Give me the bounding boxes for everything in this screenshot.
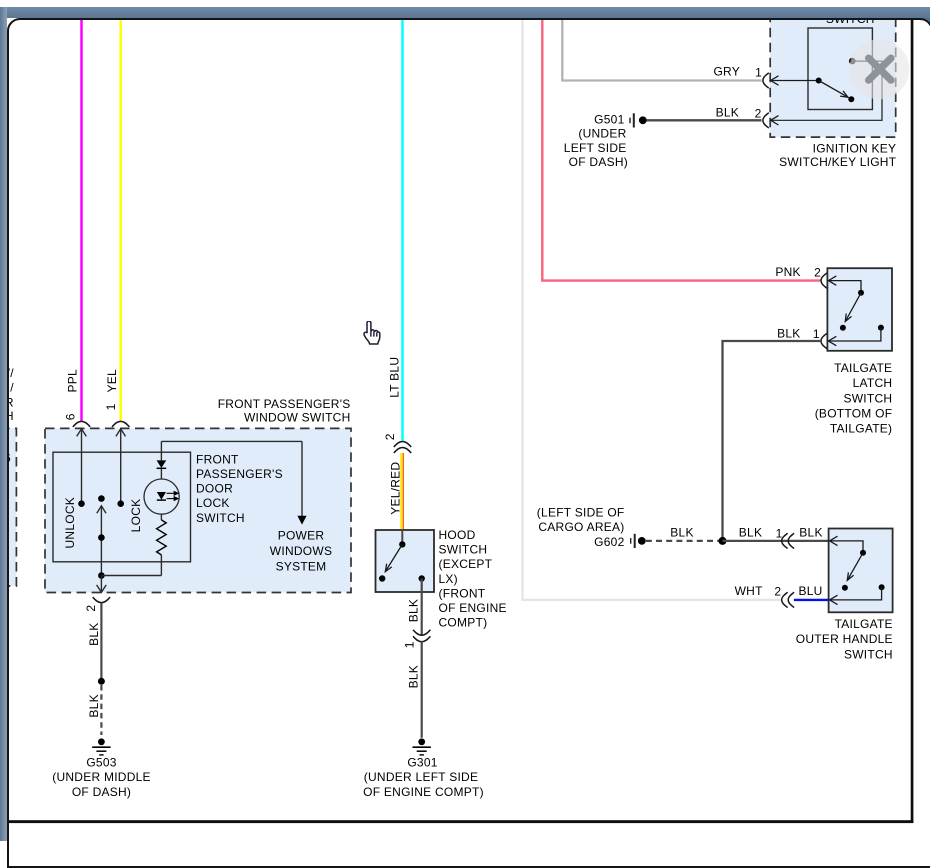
svg-text:OUTER HANDLE: OUTER HANDLE — [796, 632, 893, 646]
svg-text:G301: G301 — [407, 756, 437, 770]
latch switch blade (arrow down-left) — [845, 293, 861, 322]
inline connector (double cup) on WHT/BLU — [782, 592, 788, 607]
svg-text:1: 1 — [755, 66, 762, 80]
node hood switch lower right contact — [419, 575, 425, 581]
wire YEL/RED (vertical to hood switch) — [400, 453, 403, 530]
arrowed lead ignition pin 1 — [771, 76, 819, 85]
svg-text:YEL/RED: YEL/RED — [388, 462, 402, 515]
svg-text:BLK: BLK — [799, 526, 822, 540]
svg-text:2: 2 — [383, 433, 397, 440]
svg-text:SYSTEM: SYSTEM — [276, 560, 327, 574]
wire LT BLU (vertical) — [401, 19, 404, 441]
svg-text:SWITCH: SWITCH — [843, 391, 892, 405]
node common top contact — [98, 495, 105, 502]
svg-text:POWER: POWER — [278, 528, 325, 542]
svg-text:SWITCH/KEY LIGHT: SWITCH/KEY LIGHT — [779, 155, 897, 169]
mouse hand cursor — [364, 321, 380, 344]
node ignition blade target — [848, 96, 854, 102]
lead from outer handle pin 2 — [830, 587, 882, 604]
svg-text:UNLOCK: UNLOCK — [63, 497, 77, 549]
svg-text:BLK: BLK — [739, 526, 762, 540]
svg-text:OF DASH): OF DASH) — [72, 785, 131, 799]
node outer handle blade top — [860, 550, 866, 556]
hood switch blade (arrow down-left) — [385, 544, 402, 571]
svg-text:SWITCH: SWITCH — [826, 18, 875, 26]
svg-text:PPL: PPL — [66, 369, 80, 393]
svg-text:BLK: BLK — [406, 665, 420, 688]
node ignition key light top — [849, 58, 856, 65]
node bottom junction — [98, 572, 105, 579]
svg-text:ER: ER — [7, 395, 14, 409]
svg-text:PASSENGER'S: PASSENGER'S — [196, 467, 283, 481]
svg-text:1: 1 — [104, 403, 118, 410]
node splice on BLK wire — [98, 678, 105, 685]
ignition switch blade (arrow down-right) — [819, 81, 848, 98]
hood switch box — [376, 530, 435, 592]
svg-text:LOCK: LOCK — [196, 496, 230, 510]
svg-text:LOCK: LOCK — [129, 499, 143, 533]
connector cup at latch pin 2 — [821, 273, 827, 288]
connector hat at YEL / pin 1 — [112, 421, 129, 427]
ignition inner box — [808, 28, 872, 110]
connector cup at ignition pin 2 — [763, 113, 769, 128]
svg-text:DOOR: DOOR — [196, 482, 233, 496]
wire to power windows system — [161, 440, 302, 442]
front passenger's window switch dashed box — [45, 428, 351, 592]
ground G501 symbol — [630, 113, 647, 127]
svg-text:SWITCH: SWITCH — [844, 647, 893, 661]
wire BLK junction to inline connector — [723, 540, 790, 542]
tailgate outer handle switch box — [829, 529, 893, 613]
resistor R1 (zigzag) — [157, 520, 167, 555]
svg-text:1: 1 — [776, 527, 783, 541]
svg-text:BLK: BLK — [777, 326, 800, 340]
svg-text:OF ENGINE COMPT): OF ENGINE COMPT) — [363, 785, 484, 799]
node latch blade top — [858, 290, 864, 296]
schematic sheet frame bottom border — [7, 820, 913, 823]
svg-text:1: 1 — [402, 641, 416, 648]
svg-text:BLK: BLK — [87, 694, 101, 717]
node hood switch common — [399, 541, 405, 547]
wire YEL (vertical, to window switch pin 1) — [119, 19, 122, 421]
wire BLK from latch pin 1 down to junction — [723, 341, 821, 541]
wire BLK dashed to G503 — [100, 685, 102, 735]
svg-text:(EXCEPT: (EXCEPT — [439, 557, 493, 571]
tailgate latch switch box — [827, 268, 892, 351]
svg-text:LX): LX) — [439, 572, 458, 586]
svg-text:G501: G501 — [594, 112, 624, 126]
svg-text:TAILGATE: TAILGATE — [835, 617, 893, 631]
svg-text:2: 2 — [814, 266, 821, 280]
switch blade (common, arrow up) — [97, 506, 106, 576]
ground G503 — [92, 738, 110, 755]
exit arrow at window switch pin 2 — [97, 576, 107, 593]
wire BLK from G501 to ignition pin 2 — [647, 119, 762, 121]
inner solid box (door lock switch) — [53, 452, 191, 562]
svg-text:(UNDER MIDDLE: (UNDER MIDDLE — [52, 770, 151, 784]
svg-text:2: 2 — [84, 605, 98, 612]
outer handle switch blade (arrow down-left) — [847, 553, 863, 581]
wire PPL (vertical, to window switch pin 6) — [80, 19, 83, 421]
svg-text:6: 6 — [64, 413, 78, 420]
svg-text:G503: G503 — [86, 756, 116, 770]
svg-text:R/: R/ — [7, 381, 15, 395]
svg-text:HOOD: HOOD — [439, 528, 476, 542]
node lock contact — [117, 500, 124, 507]
svg-text:FRONT: FRONT — [196, 452, 239, 466]
wire BLU connector to outer handle box — [794, 599, 829, 601]
connector hat at PPL / pin 6 — [73, 421, 90, 427]
svg-text:WINDOWS: WINDOWS — [270, 544, 332, 558]
node latch lower-right contact — [878, 325, 884, 331]
node hood switch lower left contact — [379, 575, 385, 581]
svg-text:LEFT SIDE: LEFT SIDE — [564, 141, 627, 155]
node outer handle lower-left contact — [842, 585, 848, 591]
wire GRY (vertical then right to ignition pin 1) — [562, 19, 761, 81]
ignition key switch dashed box — [770, 8, 896, 137]
svg-text:(BOTTOM OF: (BOTTOM OF — [815, 407, 893, 421]
svg-text:CH: CH — [7, 409, 14, 423]
svg-text:SWITCH: SWITCH — [439, 543, 488, 557]
svg-text:GRY: GRY — [713, 65, 740, 79]
svg-text:COMPT): COMPT) — [439, 616, 488, 630]
ground G301 — [413, 738, 431, 755]
svg-text:FRONT PASSENGER'S: FRONT PASSENGER'S — [218, 397, 351, 411]
svg-text:PNK: PNK — [775, 265, 800, 279]
connector cup at ignition pin 1 — [763, 73, 769, 88]
arrow at ignition pin 2 — [771, 116, 779, 125]
arrow to power windows system — [297, 516, 306, 525]
svg-text:TAILGATE): TAILGATE) — [830, 422, 892, 436]
svg-text:BLK: BLK — [87, 622, 101, 645]
wire BLK connector to outer handle box — [789, 540, 829, 542]
svg-text:BLU: BLU — [798, 584, 822, 598]
lead from latch pin 1 — [828, 328, 881, 346]
LED branch vertical wire — [160, 441, 162, 575]
wire lock pin with up arrow — [116, 429, 126, 504]
wire WHT (vertical then right to tailgate outer handle pin 2) — [523, 19, 782, 600]
svg-text:1: 1 — [813, 327, 820, 341]
svg-text:(LEFT SIDE OF: (LEFT SIDE OF — [537, 506, 625, 520]
arrowed lead outer handle pin 1 — [830, 536, 863, 553]
close button (X) — [849, 39, 909, 99]
ground G602 symbol — [631, 534, 646, 548]
connector cup at latch pin 1 — [821, 333, 827, 348]
svg-text:BLK: BLK — [716, 105, 739, 119]
wire jog from bottom junction to LED branch — [101, 575, 161, 577]
arrowed lead latch pin 2 — [828, 276, 861, 293]
svg-text:2: 2 — [755, 107, 762, 121]
node latch lower-left contact — [840, 325, 846, 331]
svg-text:W/: W/ — [7, 366, 15, 380]
inline connector (double cup) on BLK wire — [413, 630, 430, 636]
svg-text:TAILGATE: TAILGATE — [834, 361, 892, 375]
svg-text:OF ENGINE: OF ENGINE — [439, 601, 507, 615]
svg-text:(UNDER LEFT SIDE: (UNDER LEFT SIDE — [364, 770, 478, 784]
diode D1 (top) — [157, 460, 167, 468]
svg-text:(UNDER: (UNDER — [578, 127, 626, 141]
svg-text:2: 2 — [774, 585, 781, 599]
svg-text:SWITCH: SWITCH — [196, 511, 245, 525]
wire unlock pin with up arrow — [77, 429, 87, 504]
svg-text:(FRONT: (FRONT — [439, 586, 486, 600]
svg-text:OF DASH): OF DASH) — [569, 155, 628, 169]
LED diode triangle — [157, 492, 166, 500]
connector cup below window switch pin 2 — [93, 597, 110, 603]
schematic sheet frame right border — [911, 19, 914, 823]
wire BLK from hood switch down — [421, 579, 423, 635]
LED indicator circle — [144, 479, 179, 514]
wire into hood switch — [401, 530, 403, 544]
LED emission arrows — [167, 492, 178, 501]
cut-off switch dashed box at left edge — [0, 428, 16, 586]
svg-text:IGNITION KEY: IGNITION KEY — [813, 141, 897, 155]
inline connector (double cup) on BLK — [782, 533, 788, 548]
svg-text:G602: G602 — [594, 535, 624, 549]
svg-text:CARGO AREA): CARGO AREA) — [538, 520, 624, 534]
wire PNK (vertical then right to tailgate latch pin 2) — [542, 19, 821, 281]
svg-text:WINDOW SWITCH: WINDOW SWITCH — [244, 410, 351, 424]
svg-text:LATCH: LATCH — [853, 376, 893, 390]
node unlock contact — [78, 500, 85, 507]
svg-text:WHT: WHT — [735, 584, 763, 598]
inline connector (double hat) on LT BLU / YEL-RED — [394, 442, 411, 448]
node blade mid junction — [98, 534, 105, 541]
svg-text:YEL: YEL — [105, 369, 119, 393]
wire key light loop — [771, 61, 882, 120]
node ignition blade pivot — [816, 78, 822, 84]
svg-text:6: 6 — [7, 451, 12, 465]
node outer handle lower-right contact — [879, 584, 885, 590]
node junction G602/latch/outer handle — [719, 537, 727, 545]
wire BLK to G301 — [421, 642, 423, 738]
svg-text:LT BLU: LT BLU — [387, 357, 401, 398]
wire BLK solid to G503 junction — [100, 603, 102, 681]
svg-text:BLK: BLK — [670, 526, 693, 540]
svg-text:BLK: BLK — [406, 599, 420, 622]
wire BLK dashed from G602 — [646, 540, 723, 542]
